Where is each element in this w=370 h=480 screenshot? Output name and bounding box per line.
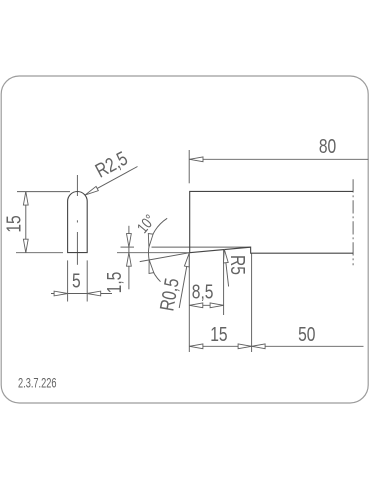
svg-text:15: 15 <box>210 323 227 345</box>
svg-text:50: 50 <box>298 323 315 345</box>
svg-text:R5: R5 <box>226 255 248 275</box>
svg-text:1,5: 1,5 <box>103 272 125 294</box>
svg-text:8,5: 8,5 <box>192 281 214 303</box>
svg-text:2.3.7.226: 2.3.7.226 <box>18 375 57 392</box>
svg-text:15: 15 <box>3 215 25 232</box>
svg-text:5: 5 <box>72 270 81 292</box>
svg-text:80: 80 <box>319 135 336 157</box>
